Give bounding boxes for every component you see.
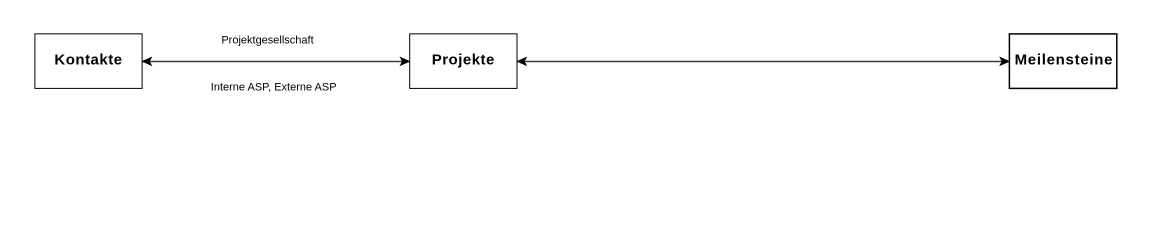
arrowhead into Projekte left side (points right) — [400, 57, 410, 66]
arrowhead into Meilensteine (points right) — [1000, 57, 1010, 66]
box Kontakte — [35, 34, 142, 89]
arrowhead into Projekte right side (points left) — [517, 57, 527, 66]
arrowhead into Kontakte (points left) — [142, 57, 152, 66]
svg-text:Projektgesellschaft: Projektgesellschaft — [221, 34, 313, 46]
svg-text:Meilensteine: Meilensteine — [1015, 52, 1114, 69]
box Meilensteine — [1009, 34, 1116, 89]
svg-text:Interne ASP, Externe ASP: Interne ASP, Externe ASP — [211, 81, 337, 93]
svg-text:Kontakte: Kontakte — [54, 52, 122, 69]
label Projektgesellschaft — [221, 34, 313, 46]
svg-text:Projekte: Projekte — [432, 52, 495, 69]
wire Projekte-Meilensteine — [517, 60, 1009, 62]
label Interne ASP, Externe ASP — [211, 81, 337, 93]
wire Kontakte-Projekte — [142, 60, 410, 62]
box Projekte — [410, 34, 517, 89]
